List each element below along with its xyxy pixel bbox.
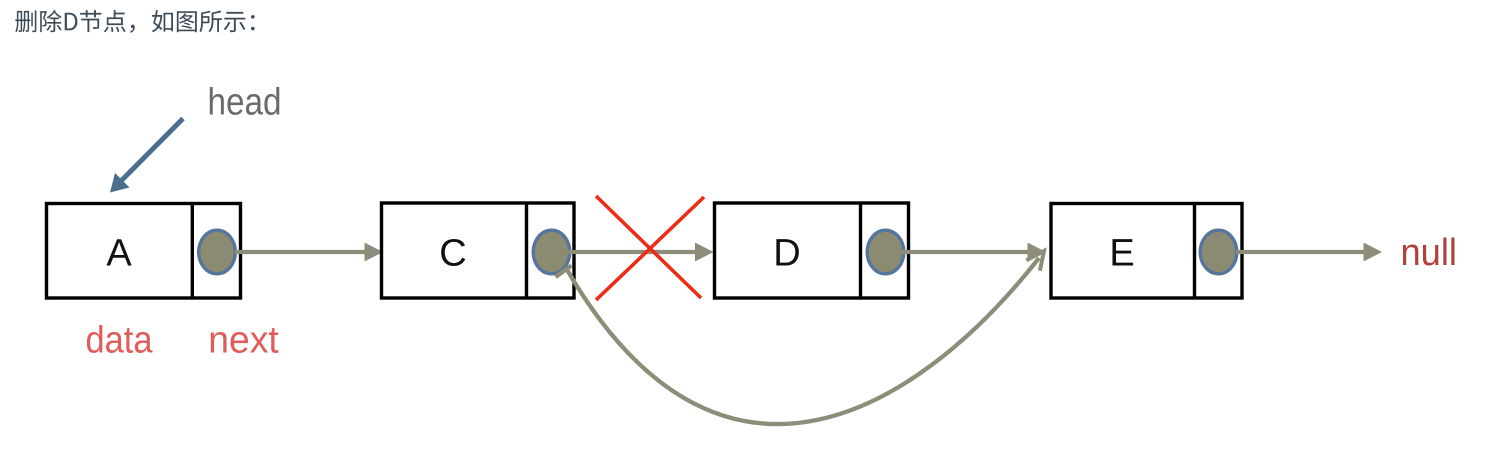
svg-text:head: head [208,81,282,123]
head arrow [110,119,183,193]
svg-text:data: data [86,319,154,361]
arrow E to null [1236,243,1382,262]
node C pointer dot [533,230,570,274]
arrow A to C [235,243,383,262]
node D box [715,203,909,298]
svg-text:next: next [208,319,279,361]
node E box [1051,204,1242,299]
node A box [47,204,241,299]
svg-text:D: D [773,233,800,275]
svg-text:A: A [106,233,132,275]
node D pointer dot [867,230,904,274]
arrow C to D [568,243,714,262]
arrow D to E [902,243,1046,262]
node E pointer dot [1200,230,1237,274]
svg-text:C: C [439,233,466,275]
svg-text:E: E [1109,233,1134,275]
svg-text:null: null [1401,232,1458,274]
title text 删除D节点，如图所示： [15,10,254,33]
node C box [382,203,575,298]
node A pointer dot [199,230,236,274]
red X deletion mark [596,196,704,300]
curve arrow C to E (bypass D) [556,251,1045,424]
